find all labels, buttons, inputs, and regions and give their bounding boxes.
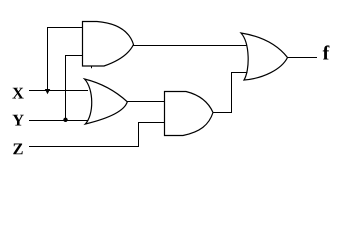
junction arrow on X line — [45, 89, 50, 94]
wire Z input — [29, 146, 139, 148]
or-gate U2 (left) — [85, 79, 128, 124]
wire U3 output, riser to OR2 input 2 — [213, 73, 248, 113]
wire U4 output to f — [287, 57, 317, 59]
output label f — [323, 45, 330, 59]
and-gate U3 (middle) — [165, 92, 214, 136]
junction dot on Y line — [63, 118, 67, 122]
or-gate U4 (right, output) — [241, 33, 288, 80]
input label Y — [12, 115, 23, 126]
and-gate U1 (top) — [83, 22, 134, 67]
wire Z riser to AND2 input 2 — [139, 123, 165, 147]
wire X branch riser to AND1 input 1 — [48, 28, 83, 93]
input label Z — [13, 143, 22, 154]
wire U1 output to OR2 input 1 — [133, 45, 247, 47]
wire Y branch riser to AND1 input 2 — [66, 56, 83, 121]
wire Y input — [29, 120, 88, 122]
tick on U1 bottom edge — [91, 66, 93, 68]
wire U2 output to AND2 input 1 — [127, 101, 165, 103]
input label X — [12, 88, 23, 99]
wire X input — [29, 90, 88, 92]
